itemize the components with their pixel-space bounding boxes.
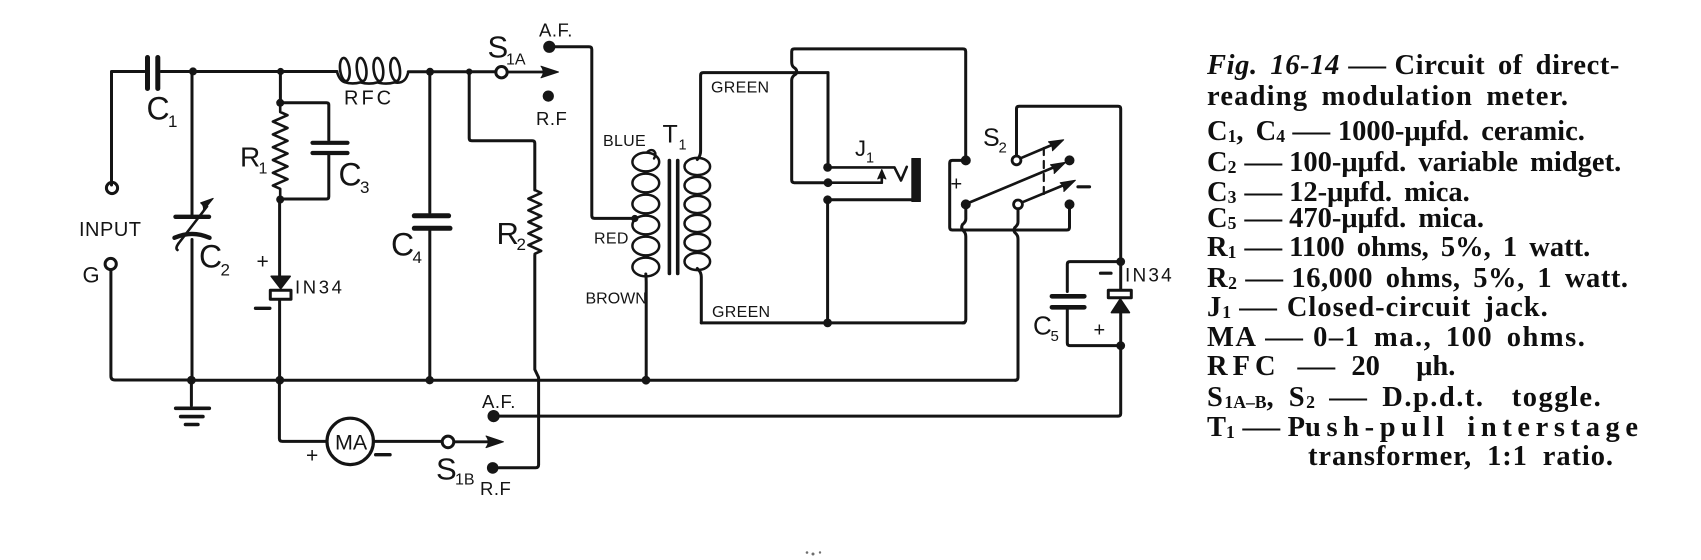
wire T1 brown lead to rail <box>644 274 647 378</box>
svg-text:IN34: IN34 <box>1125 266 1174 287</box>
wire C4 bottom <box>428 231 431 378</box>
wire 1N34 to A.F. bus <box>1118 346 1121 417</box>
diode 1N34 (left) <box>271 276 290 288</box>
svg-text:A.F.: A.F. <box>482 391 516 412</box>
capacitor C3 <box>313 141 348 145</box>
svg-text:+: + <box>951 174 963 196</box>
svg-text:C: C <box>199 239 222 275</box>
terminal R.F (bottom) <box>487 462 499 474</box>
node R1 bottom <box>276 196 284 204</box>
T1 primary winding <box>648 150 656 158</box>
terminal INPUT <box>106 182 117 193</box>
wire A.F. to transformer red tap <box>555 47 632 219</box>
wire J1 contact bracket to top rail (jog over green) <box>792 49 966 183</box>
svg-text:2: 2 <box>999 140 1007 157</box>
svg-text:3: 3 <box>360 178 369 197</box>
svg-text:INPUT: INPUT <box>79 219 142 241</box>
svg-text:4: 4 <box>413 248 422 267</box>
svg-text:RED: RED <box>594 231 629 248</box>
node 1N34b bottom <box>1116 341 1125 350</box>
svg-text:C: C <box>391 227 414 263</box>
node brown-rail <box>642 376 651 385</box>
wire diode to rail <box>278 300 281 378</box>
node sleeve-green <box>823 319 832 328</box>
node top-C4 <box>426 68 434 76</box>
meter MA <box>327 418 373 464</box>
svg-text:+: + <box>306 445 318 468</box>
capacitor C4 <box>414 213 448 218</box>
node top-R2 <box>466 69 472 75</box>
svg-text:2: 2 <box>517 235 526 254</box>
node J1 tip <box>823 163 832 172</box>
svg-text:G: G <box>83 263 100 288</box>
S2 pole 1 wire up/right <box>1017 106 1121 259</box>
svg-text:GREEN: GREEN <box>711 80 769 97</box>
terminal A.F. (bottom) <box>488 410 500 422</box>
capacitor C1 <box>148 58 158 89</box>
J1 sleeve <box>823 195 832 204</box>
wire A.F. bus bottom <box>500 415 1118 418</box>
svg-text:BROWN: BROWN <box>586 291 647 308</box>
S2 bracket top-left to bottom-right <box>950 160 1070 230</box>
node C2-ground rail <box>187 376 196 385</box>
capacitor C2 (variable) <box>191 72 194 215</box>
svg-text:1: 1 <box>259 161 268 178</box>
svg-text:1: 1 <box>679 138 687 154</box>
terminal R.F (top) <box>543 91 554 102</box>
svg-text:1B: 1B <box>455 472 475 489</box>
svg-text:J: J <box>855 136 866 161</box>
wire top node to R1 node <box>279 72 282 103</box>
node R1 top <box>276 99 284 107</box>
svg-text:R: R <box>240 142 260 173</box>
wire R1 to diode <box>278 200 281 277</box>
T1 core <box>668 161 672 274</box>
wire rail to meter <box>279 380 326 441</box>
node 1N34b top <box>1116 257 1125 266</box>
diode 1N34 (right) <box>1101 272 1112 275</box>
node C4-rail <box>426 376 434 384</box>
resistor R2 <box>528 190 541 254</box>
terminal G <box>105 258 116 269</box>
svg-text:+: + <box>1094 320 1106 342</box>
svg-text:R.F: R.F <box>536 108 567 129</box>
S2 minus <box>1078 185 1090 188</box>
S2 terminal bottom-left <box>961 199 971 209</box>
svg-text:S: S <box>983 124 1000 152</box>
wire C4 branch top <box>428 72 431 213</box>
J1 closed-circuit contact <box>824 178 833 187</box>
wire top bus left of C1 <box>112 72 145 186</box>
capacitor C5 <box>1067 262 1120 292</box>
node top-R1 <box>277 68 284 75</box>
terminal A.F. (top) <box>543 41 555 53</box>
svg-text:C: C <box>1033 311 1052 341</box>
S2 terminal bottom-right <box>1065 199 1075 209</box>
svg-text:A.F.: A.F. <box>539 20 573 41</box>
svg-text:C: C <box>339 157 362 193</box>
wire R1-C3 top <box>280 103 329 140</box>
svg-text:C: C <box>147 91 170 127</box>
wire S2 pole2 down to rail (jog) <box>1014 209 1018 380</box>
wire RFC to S1A <box>408 70 495 73</box>
wire C3 bottom to R1 bottom <box>280 156 329 200</box>
S2 terminal top-left <box>961 155 971 165</box>
svg-text:MA: MA <box>335 431 368 455</box>
wire ground rail <box>191 379 1016 382</box>
svg-text:1: 1 <box>168 112 177 131</box>
svg-text:RFC: RFC <box>344 88 394 110</box>
wire R2 branch <box>469 72 535 190</box>
svg-text:1: 1 <box>866 151 874 167</box>
wire secondary top lead (green) <box>697 73 828 160</box>
wire top bus C1 to RFC <box>161 70 337 73</box>
wire green top down to J1 tip <box>827 73 830 165</box>
S2 blade bottom-left to top-right <box>970 167 1055 203</box>
node red tap <box>631 215 638 222</box>
svg-text:S: S <box>436 452 457 487</box>
wire green bottom bus <box>701 321 964 324</box>
T1 secondary winding <box>685 158 711 175</box>
S2 pole 2 <box>1014 200 1023 209</box>
wire meter to S1B <box>373 440 441 443</box>
svg-text:T: T <box>663 121 678 149</box>
wire J1 sleeve down to green bus <box>826 200 829 323</box>
ground <box>190 380 193 405</box>
svg-text:5: 5 <box>1051 328 1059 345</box>
wire G to ground rail <box>111 270 191 380</box>
stray specks bottom <box>806 551 822 555</box>
wire S2 bottom-left to green bus (jog) <box>962 204 966 323</box>
S2 link (dashed) <box>1043 148 1045 198</box>
node top-C2 <box>189 67 197 75</box>
svg-text:BLUE: BLUE <box>603 133 646 150</box>
svg-text:1A: 1A <box>506 52 526 69</box>
wire R2 down to R.F terminal (jog over buses) <box>499 255 539 468</box>
svg-text:GREEN: GREEN <box>712 304 770 321</box>
wire secondary bottom lead (green) <box>697 269 701 323</box>
S2 terminal top-right <box>1065 155 1075 165</box>
switch S1A <box>496 67 507 78</box>
svg-text:2: 2 <box>221 261 230 280</box>
svg-text:+: + <box>257 251 269 274</box>
node diode-rail <box>275 376 284 385</box>
svg-text:IN34: IN34 <box>295 277 344 298</box>
RFC coil <box>337 72 408 84</box>
resistor R1 <box>273 103 288 200</box>
S2 pole 1 <box>1012 156 1021 165</box>
switch S1B <box>442 436 454 448</box>
svg-text:R.F: R.F <box>480 478 511 499</box>
